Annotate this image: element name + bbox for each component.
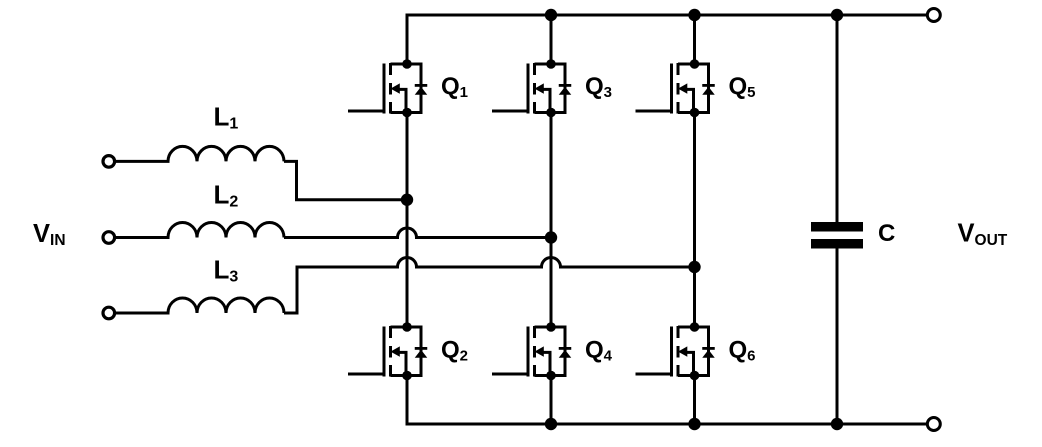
- wire phase 2 (L2 to leg2 node, hops leg1): [284, 228, 551, 238]
- wire leg3 bottom (Q6 source to rail): [693, 376, 696, 425]
- terminal input phase 1: [103, 156, 115, 168]
- wire phase 1 (L1 to leg1 node): [284, 161, 407, 199]
- junction bottom rail / leg2: [545, 418, 557, 430]
- wire leg3 mid (Q5 source to Q6 drain): [693, 113, 696, 328]
- wire top rail: [407, 15, 926, 64]
- inductor L2: [116, 223, 284, 238]
- transistor Q2: [348, 322, 427, 380]
- svg-text:C: C: [878, 220, 895, 247]
- junction top rail / leg3: [688, 9, 700, 21]
- junction top rail / capacitor: [831, 9, 843, 21]
- wire leg1 mid (Q1 source to Q2 drain): [406, 113, 409, 328]
- wire leg2 top (rail to Q3 drain): [550, 15, 553, 64]
- terminal output positive: [927, 9, 940, 22]
- wire capacitor branch top: [836, 15, 839, 222]
- wire leg2 mid (Q3 source to Q4 drain): [550, 113, 553, 328]
- wire leg2 bottom (Q4 source to rail): [550, 376, 553, 425]
- inductor L3: [116, 298, 284, 313]
- terminal output negative: [927, 418, 940, 431]
- junction top rail / leg2: [545, 9, 557, 21]
- transistor Q1: [348, 59, 427, 117]
- wire leg3 top (rail to Q5 drain): [693, 15, 696, 64]
- capacitor C bottom plate: [811, 239, 863, 249]
- wire phase 3 (L3 to leg3 node, hops leg1 and leg2): [284, 258, 695, 314]
- node phase 3: [688, 261, 700, 273]
- inductor L1: [116, 146, 284, 161]
- transistor Q5: [636, 59, 715, 117]
- transistor Q3: [492, 59, 571, 117]
- capacitor C top plate: [811, 222, 863, 232]
- transistor Q4: [492, 322, 571, 380]
- junction bottom rail / capacitor: [831, 418, 843, 430]
- transistor Q6: [636, 322, 715, 380]
- wire bottom rail: [407, 376, 926, 425]
- terminal input phase 2: [103, 232, 115, 244]
- junction bottom rail / leg3: [688, 418, 700, 430]
- terminal input phase 3: [103, 307, 115, 319]
- node phase 1: [401, 194, 413, 206]
- node phase 2: [545, 231, 557, 243]
- wire capacitor branch bottom: [836, 249, 839, 425]
